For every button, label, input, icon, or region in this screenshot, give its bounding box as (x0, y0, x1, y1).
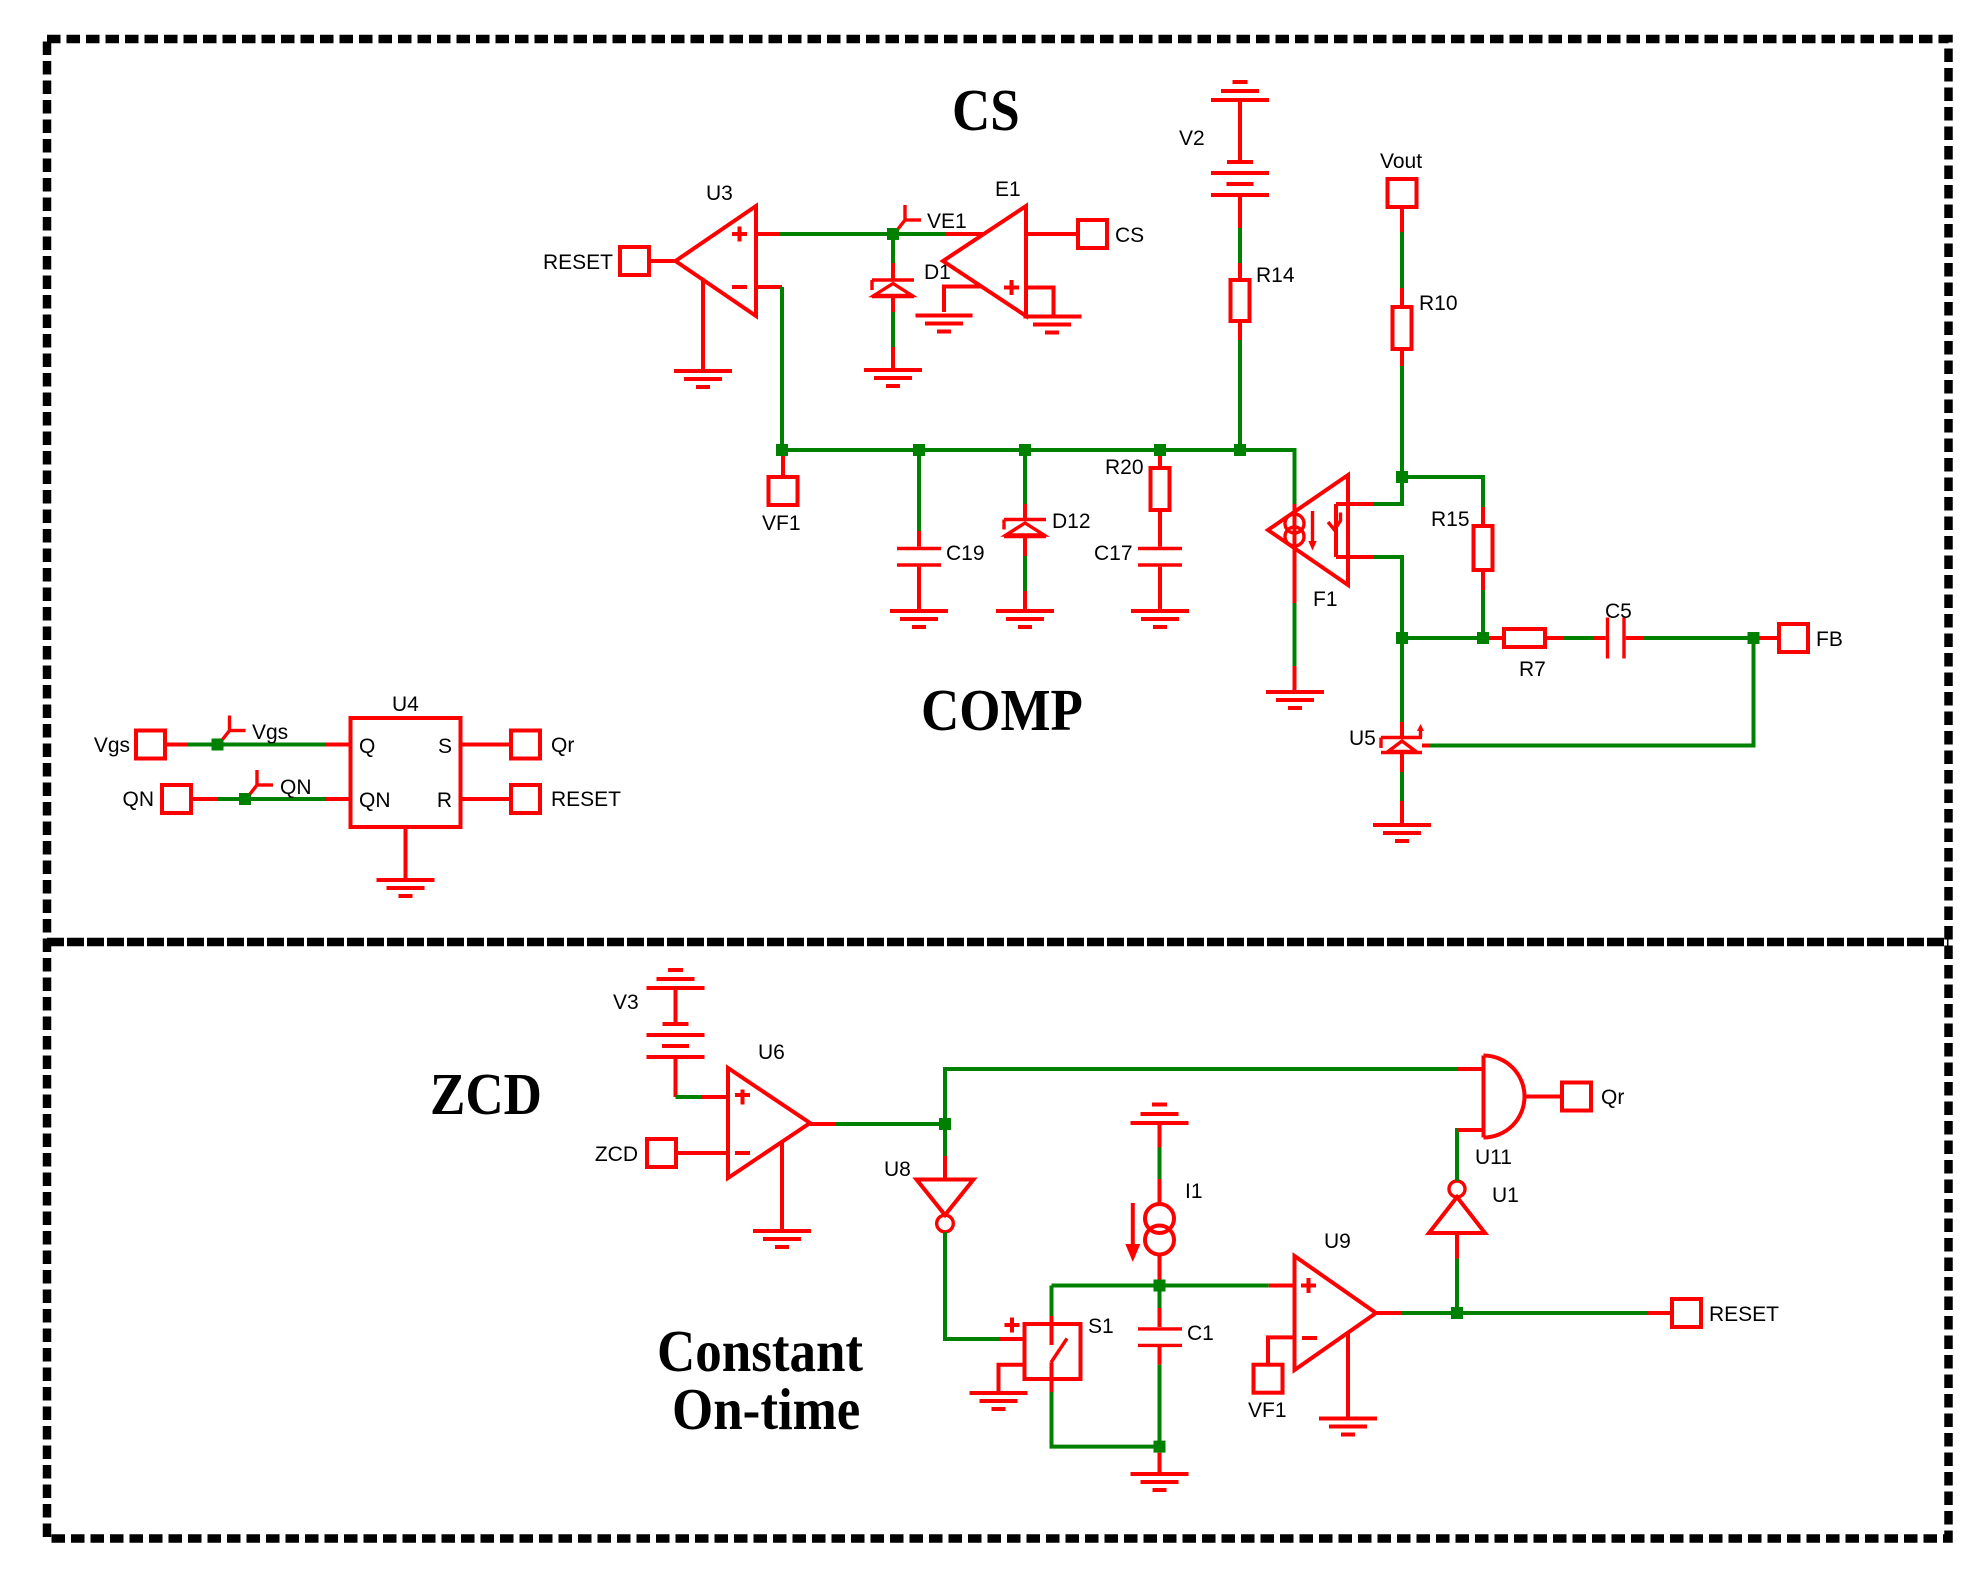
ground (F1) (1266, 692, 1324, 708)
wire R7 to C5 (1564, 636, 1593, 640)
ground (D1) (864, 370, 922, 386)
junction U9 output node (1451, 1307, 1463, 1319)
flag QN (250, 770, 312, 799)
svg-text:C1: C1 (1187, 1322, 1214, 1345)
wire FB node to U5 ref (1429, 638, 1754, 746)
svg-text:S: S (438, 735, 452, 758)
svg-text:C17: C17 (1094, 542, 1133, 565)
port Vgs (94, 731, 165, 759)
ground (U3) (674, 280, 732, 387)
port Qr (bottom) (1525, 1083, 1625, 1111)
wire U6 output to node (810, 1122, 945, 1126)
wire R14 to bus (1238, 340, 1242, 450)
svg-text:U9: U9 (1324, 1230, 1351, 1253)
wire ZCD to U6 - input (676, 1151, 728, 1155)
wire comp node horizontal (1402, 636, 1483, 640)
power ground above I1 (1131, 1105, 1189, 1124)
resistor R7 (1489, 629, 1564, 681)
junction comp node left (1396, 632, 1408, 644)
port RESET (top left) (543, 247, 676, 275)
svg-text:V3: V3 (613, 991, 639, 1014)
svg-text:QN: QN (280, 776, 312, 799)
junction C1 bottom node (1154, 1441, 1166, 1453)
junction R10/R15/F1 (1396, 471, 1408, 483)
svg-text:On-time: On-time (672, 1377, 860, 1442)
wire U3 + input to node VE1 (780, 232, 893, 236)
wire C5 to FB node (1643, 636, 1754, 640)
svg-text:VF1: VF1 (1248, 1399, 1287, 1422)
svg-text:Vgs: Vgs (94, 734, 130, 757)
power ground above V3 (647, 970, 705, 988)
ground (C1) (1131, 1474, 1189, 1490)
wire S1 bottom to C1 bottom node (1052, 1392, 1160, 1447)
ground (U4) (377, 880, 435, 896)
wire U9 output to RESET (1376, 1311, 1672, 1315)
svg-text:D12: D12 (1052, 510, 1091, 533)
ground (E1 right) (1024, 317, 1082, 333)
wire V2 to R14 (1238, 228, 1242, 263)
wire U9 - input to VF1 (1268, 1337, 1295, 1364)
svg-text:QN: QN (123, 788, 155, 811)
wire main bus (782, 450, 1295, 504)
svg-text:R10: R10 (1419, 292, 1458, 315)
svg-text:U1: U1 (1492, 1184, 1519, 1207)
battery V2 (1179, 100, 1269, 228)
wire QN to U4 QN pin (191, 797, 351, 801)
svg-text:F1: F1 (1313, 588, 1338, 611)
port Vout (1380, 150, 1422, 207)
zener diode D1 (872, 240, 951, 369)
capacitor C19 (897, 456, 985, 610)
svg-text:RESET: RESET (551, 788, 621, 811)
svg-text:Q: Q (359, 735, 375, 758)
ground (U5) (1373, 825, 1431, 841)
junction D12 node (1019, 444, 1031, 456)
svg-text:I1: I1 (1185, 1180, 1203, 1203)
capacitor C5 (1593, 600, 1643, 659)
svg-text:E1: E1 (995, 178, 1021, 201)
svg-text:VF1: VF1 (762, 512, 801, 535)
svg-text:Qr: Qr (551, 734, 574, 757)
svg-text:R15: R15 (1431, 508, 1470, 531)
svg-text:R20: R20 (1105, 456, 1144, 479)
wire I1 node horizontal (1052, 1284, 1295, 1288)
ground (C17) (1131, 611, 1189, 627)
capacitor C1 (1138, 1291, 1214, 1447)
svg-text:FB: FB (1816, 628, 1843, 651)
svg-text:S1: S1 (1088, 1315, 1114, 1338)
wire U1 output to U11 bottom input (1457, 1130, 1484, 1181)
svg-text:ZCD: ZCD (595, 1143, 638, 1166)
current source I1 (1125, 1123, 1202, 1280)
wire E1 lower pin to ground (944, 287, 981, 313)
wire F1 top pin to R10 node (1374, 477, 1402, 504)
svg-text:U6: U6 (758, 1041, 785, 1064)
junction C19 node (913, 444, 925, 456)
svg-text:Vout: Vout (1380, 150, 1422, 173)
border divider (47, 938, 1949, 947)
resistor R15 (1402, 477, 1493, 638)
wire S1 lower-left pin to ground (999, 1365, 1025, 1392)
wire node VE1 to E1 input (899, 232, 984, 236)
wire F1 to ground (1293, 603, 1297, 666)
wire F1 bottom pin down to comp node (1374, 557, 1402, 638)
source F1 (CCCS) (1268, 475, 1374, 611)
port QN (123, 785, 192, 813)
junction U6 output node (939, 1118, 951, 1130)
inverter U8 (884, 1130, 974, 1232)
inverter U1 (1429, 1181, 1519, 1313)
junction Vgs node (212, 739, 224, 751)
ground (C19) (890, 611, 948, 627)
port CS (1026, 220, 1144, 248)
svg-text:C5: C5 (1605, 600, 1632, 623)
wire Vgs to U4 Q pin (165, 743, 351, 747)
battery V3 (613, 988, 705, 1097)
port RESET (bottom) (1672, 1299, 1779, 1327)
E1 under-box bracket (1026, 288, 1054, 317)
port Qr (top) (461, 731, 575, 759)
port FB (1760, 624, 1843, 652)
op-amp U6 (728, 1041, 810, 1178)
svg-text:U5: U5 (1349, 727, 1376, 750)
resistor R10 (1393, 207, 1458, 366)
wire R10 down to junction (1400, 366, 1404, 504)
svg-text:VE1: VE1 (927, 210, 967, 233)
junction FB node (1748, 632, 1760, 644)
ground (D12) (996, 611, 1054, 627)
svg-text:U4: U4 (392, 693, 419, 716)
junction R20 node (1154, 444, 1166, 456)
capacitor C17 (1094, 542, 1182, 610)
latch U4 (351, 693, 461, 880)
svg-text:U11: U11 (1475, 1146, 1512, 1169)
svg-text:CS: CS (1115, 224, 1144, 247)
flag Vgs (223, 716, 289, 745)
svg-text:RESET: RESET (1709, 1303, 1779, 1326)
flag VE1 (898, 205, 967, 233)
port VF1 (bottom) (1248, 1365, 1287, 1422)
op-amp U9 (1295, 1230, 1377, 1370)
junction VF1 node (776, 444, 788, 456)
wire node to U11 top input (945, 1069, 1484, 1124)
svg-text:ZCD: ZCD (430, 1062, 542, 1127)
AND gate U11 (1475, 1056, 1525, 1170)
junction QN node (239, 793, 251, 805)
wire U8 output to S1 (945, 1232, 1025, 1339)
node VE1 junction (887, 228, 899, 240)
svg-text:RESET: RESET (543, 251, 613, 274)
svg-text:V2: V2 (1179, 127, 1205, 150)
svg-text:CS: CS (952, 78, 1020, 143)
op-amp E1 (943, 178, 1026, 316)
wire node to S1 top (1050, 1286, 1054, 1317)
svg-text:COMP: COMP (921, 678, 1083, 743)
ground (U6) (753, 1143, 811, 1247)
svg-text:R7: R7 (1519, 658, 1546, 681)
shunt regulator U5 (1349, 644, 1424, 824)
ground (U9) (1319, 1333, 1377, 1435)
svg-text:U8: U8 (884, 1158, 911, 1181)
switch S1 (1005, 1315, 1114, 1392)
op-amp U3 (676, 182, 783, 316)
svg-text:R14: R14 (1256, 264, 1295, 287)
svg-text:Vgs: Vgs (252, 721, 288, 744)
wire U3 - input down to bus (780, 287, 784, 450)
resistor R14 (1231, 263, 1295, 340)
port RESET (top mid) (461, 785, 622, 813)
svg-text:QN: QN (359, 789, 391, 812)
junction comp node right (R15/R7) (1477, 632, 1489, 644)
wire node to ground (1158, 1453, 1162, 1474)
svg-text:C19: C19 (946, 542, 985, 565)
resistor R20 (1105, 456, 1170, 547)
wire V3 to U6 + input (676, 1095, 729, 1099)
power ground above V2 (1211, 82, 1269, 100)
svg-text:R: R (437, 789, 452, 812)
ground (E1 left) (916, 316, 973, 332)
port VF1 (top) (762, 456, 801, 535)
zener diode D12 (1004, 456, 1091, 610)
junction V2/R14 node (1234, 444, 1246, 456)
svg-text:Qr: Qr (1601, 1086, 1624, 1109)
port ZCD (595, 1139, 676, 1167)
svg-text:U3: U3 (706, 182, 733, 205)
ground (S1) (970, 1393, 1028, 1409)
junction I1 node (1154, 1280, 1166, 1292)
svg-text:Constant: Constant (657, 1319, 863, 1384)
